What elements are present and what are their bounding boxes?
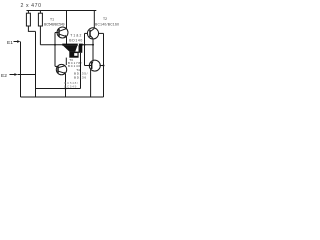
- wire T2 collector riser: [93, 11, 95, 29]
- wire T1 base vertical: [54, 33, 56, 67]
- resistor R2: [38, 11, 42, 45]
- wire E1 vertical: [20, 42, 22, 98]
- loudspeaker LS: [62, 44, 82, 58]
- wire emitter line: [36, 88, 81, 90]
- wire T1 emitter riser: [66, 37, 68, 45]
- wire T1 collector riser: [66, 11, 68, 29]
- svg-text:E2: E2: [1, 73, 7, 79]
- node E2: [1, 73, 36, 79]
- node E1: [7, 40, 20, 46]
- svg-text:E1: E1: [7, 40, 13, 46]
- transistor T4: [85, 60, 104, 71]
- svg-text:BD136: BD136: [74, 75, 86, 79]
- junction dot T2 emitter: [92, 44, 94, 46]
- svg-text:T2: T2: [103, 17, 107, 21]
- transistor T1: [55, 27, 68, 38]
- svg-text:T1&2: T1&2: [70, 34, 81, 38]
- svg-text:T1: T1: [50, 18, 54, 22]
- wire left chain vertical: [35, 32, 37, 98]
- junction dot base node: [54, 44, 56, 46]
- wire right rail vertical: [103, 33, 105, 97]
- svg-text:BC140/BC160: BC140/BC160: [95, 23, 119, 27]
- junction dot T4 right: [103, 65, 105, 67]
- transistor T2: [85, 28, 104, 39]
- svg-text:BC549: BC549: [64, 84, 76, 88]
- wire T3 emitter riser: [65, 74, 67, 97]
- junction dot emitter line: [65, 88, 67, 90]
- wire T4 collector riser: [92, 45, 94, 61]
- wire T2 emitter vertical: [92, 39, 94, 45]
- svg-text:BC548/BC549: BC548/BC549: [44, 23, 65, 27]
- wire speaker return vertical: [80, 53, 82, 89]
- svg-text:2 x 470: 2 x 470: [21, 3, 42, 9]
- wire base node horizontal: [40, 44, 93, 46]
- svg-text:BD140: BD140: [69, 39, 82, 43]
- junction dot base bus: [84, 44, 86, 46]
- wire T3 collector riser: [65, 58, 67, 65]
- wire bottom ground rail: [21, 96, 104, 98]
- resistor R1: [26, 11, 35, 32]
- wire top supply rail: [27, 10, 97, 12]
- transistor T3: [55, 64, 67, 74]
- wire base bus vertical: [84, 33, 86, 65]
- wire T4 emitter riser: [90, 69, 92, 97]
